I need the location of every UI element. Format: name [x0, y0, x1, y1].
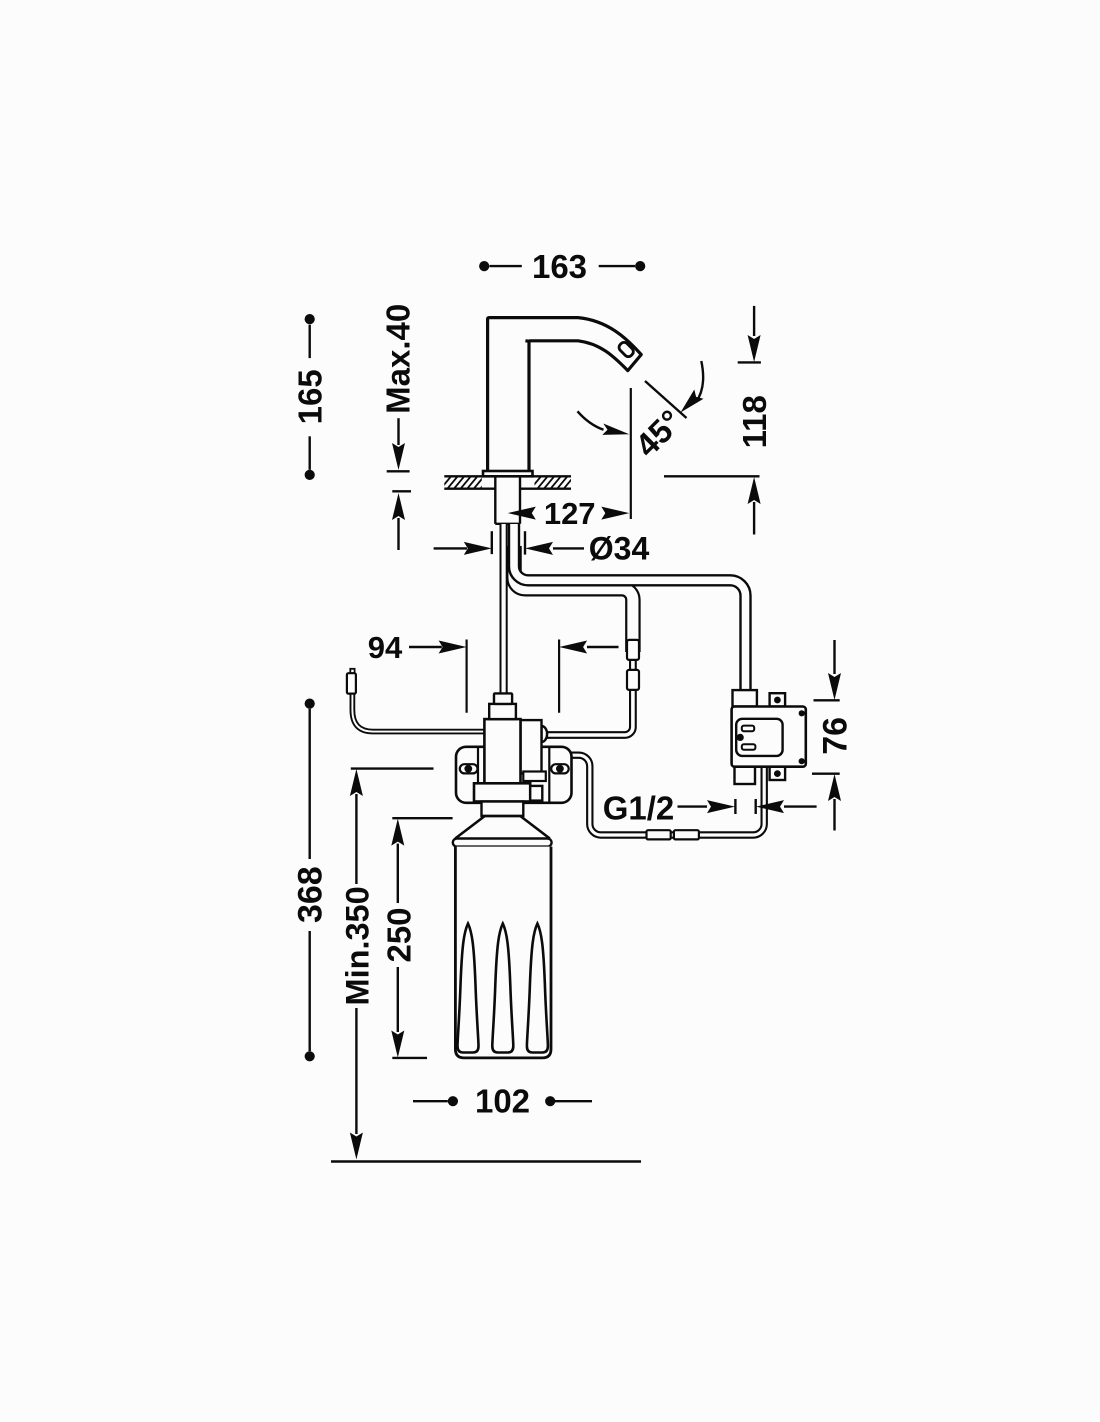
bracket bend line right: [548, 748, 550, 802]
bracket bend line left: [477, 748, 479, 802]
dimension Min.350: [340, 769, 434, 1160]
svg-text:Max.40: Max.40: [380, 304, 417, 414]
bottle flute 3: [527, 924, 548, 1053]
sensor cable tube to control box: [514, 524, 746, 692]
svg-text:250: 250: [381, 907, 418, 962]
bottle shoulder: [455, 816, 550, 839]
face slot upper: [742, 726, 754, 732]
dimension 76 (control box height): [812, 640, 854, 831]
left connector body: [347, 673, 356, 693]
control box top connector: [733, 690, 757, 706]
control box top tab: [770, 693, 786, 706]
valve outlet nipple: [542, 726, 548, 742]
dimension 94: [368, 630, 619, 713]
box corner screw top: [799, 710, 805, 716]
bottle flute 1: [458, 924, 479, 1053]
soap tube thin run to valve: [547, 650, 633, 735]
box corner screw bottom: [799, 758, 805, 764]
svg-text:76: 76: [816, 717, 854, 755]
svg-text:Min.350: Min.350: [340, 886, 376, 1005]
soap bottle body: [455, 847, 551, 1058]
bottle top ring: [453, 839, 552, 847]
left connector stub: [350, 669, 354, 673]
countertop hatch left: [438, 474, 493, 492]
soap suction tube (wide run to inline connectors): [514, 546, 633, 652]
dimension 165 (left height): [292, 314, 329, 480]
valve side attachment: [521, 720, 542, 773]
dimension 102 (bottle width): [413, 1083, 592, 1120]
clamp end square: [530, 786, 542, 801]
svg-text:102: 102: [475, 1083, 530, 1120]
valve attachment step: [523, 772, 546, 782]
faucet cable to solenoid valve: [500, 524, 508, 693]
dimension 118 (outlet above counter): [664, 306, 773, 535]
swivel arc right: [696, 361, 703, 402]
svg-text:127: 127: [544, 496, 596, 531]
face slot lower: [742, 744, 756, 750]
clamp bar: [474, 783, 530, 801]
control box body: [732, 707, 806, 767]
faucet inner vertical line: [525, 341, 529, 471]
floor baseline: [331, 1160, 641, 1163]
countertop surface lines: [444, 475, 483, 477]
faucet base flange: [483, 471, 533, 476]
solenoid valve body: [484, 719, 520, 784]
water supply tube G1/2: [566, 755, 764, 835]
valve cable connector: [494, 693, 512, 704]
dimension G1/2: [603, 790, 817, 827]
dimension 127 (center to outlet): [508, 496, 630, 531]
outlet extension line: [630, 388, 632, 519]
bracket slot left: [460, 764, 478, 773]
inline connector lower: [627, 670, 639, 690]
face hole: [737, 734, 744, 741]
mounting bracket plate: [456, 747, 572, 803]
threaded shank below counter: [494, 476, 496, 524]
supply tube connector right: [674, 830, 699, 839]
svg-text:Ø34: Ø34: [589, 531, 650, 567]
control box top tab screw: [774, 697, 781, 704]
bottle flute 2: [492, 924, 513, 1053]
sensor window on spout: [617, 341, 635, 359]
45-degree line: [645, 381, 687, 418]
faucet body outline: [488, 318, 642, 471]
swivel arc left: [578, 411, 604, 430]
svg-text:368: 368: [292, 866, 330, 923]
dimension 250: [381, 818, 453, 1058]
svg-text:163: 163: [532, 248, 587, 285]
svg-text:118: 118: [736, 395, 773, 448]
valve top block: [489, 704, 516, 719]
supply tube connector left: [647, 830, 671, 839]
control box bottom tab: [770, 767, 786, 780]
bracket screw right: [556, 765, 564, 773]
control box face plate: [736, 719, 782, 756]
bracket slot right: [551, 764, 569, 773]
left sensor cable with connector: [352, 692, 484, 732]
svg-text:G1/2: G1/2: [603, 790, 675, 827]
dimension 163 (top width): [479, 248, 645, 285]
bracket screw left: [464, 765, 472, 773]
control box bottom tab screw: [774, 770, 781, 777]
dimension Ø34 (shank diameter): [434, 531, 650, 567]
countertop hatch right: [528, 474, 576, 492]
control box bottom connector: [735, 767, 756, 784]
svg-text:94: 94: [368, 630, 403, 665]
inline connector upper: [627, 640, 639, 660]
dimension 368: [292, 699, 330, 1062]
dimension Max.40 (counter thickness): [380, 304, 417, 550]
bottle neck: [482, 802, 524, 817]
svg-text:165: 165: [292, 369, 329, 424]
